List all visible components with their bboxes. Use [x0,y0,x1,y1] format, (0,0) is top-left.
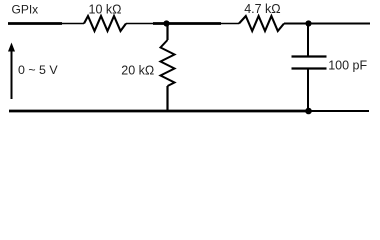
svg-text:20 kΩ: 20 kΩ [121,63,154,77]
wire: GPIx input stub (thick) [8,22,62,25]
wire: node A segment (thick) [153,22,221,25]
voltage annotation arrow (0~5V) [8,43,15,100]
svg-text:100 pF: 100 pF [328,58,367,72]
svg-text:GPIx: GPIx [12,3,39,17]
wire: bottom ground rail (thick part) [9,110,309,113]
wire: node B down lead to capacitor [307,24,309,56]
capacitor C 100pF top plate [292,55,327,57]
junction node B [305,20,311,26]
svg-text:10 kΩ: 10 kΩ [89,2,122,16]
wire: R1 to node A [126,23,153,25]
wire: bottom ground rail (right part) [309,110,370,112]
junction node A [163,20,169,26]
svg-text:0 ~ 5 V: 0 ~ 5 V [18,63,58,77]
resistor R 4.7k zigzag [239,16,284,31]
wire: node A to R2 [221,23,239,25]
svg-text:4.7 kΩ: 4.7 kΩ [244,2,280,16]
wire: R2 to node B [284,23,370,25]
resistor R 20k vertical zigzag [161,40,175,86]
resistor R 10k zigzag [84,16,126,31]
wire: node A down lead [166,24,168,41]
wire: stub to R1 [61,23,84,25]
junction on bottom rail [305,108,312,115]
capacitor C 100pF bottom plate [292,67,327,69]
wire: R3 bottom lead to ground rail [166,86,168,111]
wire: capacitor bottom lead to ground rail [307,70,309,112]
